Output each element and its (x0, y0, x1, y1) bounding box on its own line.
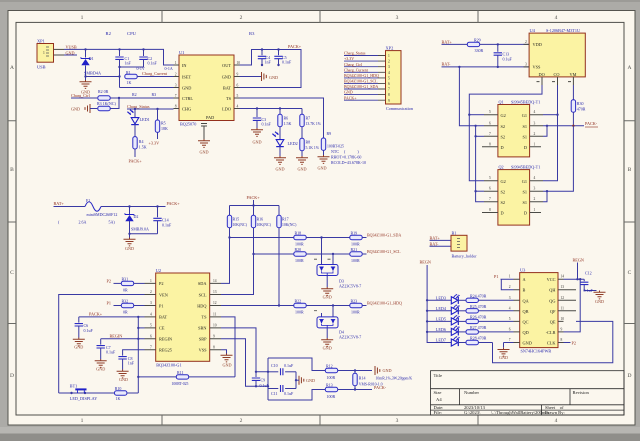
node D2 tap (128, 205, 130, 207)
svg-text:R12: R12 (326, 364, 333, 369)
svg-text:HDQ: HDQ (197, 303, 207, 308)
svg-text:U3: U3 (520, 267, 526, 272)
svg-text:R5: R5 (161, 120, 166, 125)
node CO/G1 (556, 114, 558, 116)
svg-text:S2: S2 (501, 124, 506, 129)
svg-text:QA: QA (523, 298, 530, 303)
wire VCC row (564, 263, 585, 280)
svg-text:2.6A: 2.6A (79, 220, 87, 225)
wire SRN (221, 328, 256, 372)
ground below D4 (321, 338, 333, 346)
svg-text:C11: C11 (271, 391, 278, 396)
svg-text:100R: 100R (295, 242, 304, 247)
svg-text:8: 8 (561, 338, 563, 342)
svg-text:RHOT=0.178K-60: RHOT=0.178K-60 (331, 155, 361, 160)
svg-text:F1: F1 (86, 198, 90, 203)
node caps top (261, 48, 263, 50)
svg-text:C10: C10 (271, 363, 278, 368)
svg-text:1: 1 (509, 275, 511, 279)
ground right of R12 (375, 366, 380, 375)
node D2 bottom (128, 233, 130, 235)
svg-text:10: 10 (561, 317, 565, 321)
svg-text:BQ34Z100-G1_HDQ: BQ34Z100-G1_HDQ (344, 73, 379, 78)
svg-text:R27 470R: R27 470R (470, 325, 487, 330)
svg-text:+3.3V: +3.3V (149, 141, 160, 146)
wire S2 bus (476, 126, 484, 202)
LED LED5 (426, 315, 466, 325)
node R1 left (118, 75, 120, 77)
svg-text:LED4: LED4 (436, 306, 447, 311)
svg-text:R32: R32 (122, 299, 129, 304)
svg-text:3: 3 (175, 83, 177, 87)
svg-text:SRP: SRP (199, 337, 207, 342)
svg-text:2: 2 (509, 285, 511, 289)
svg-text:6: 6 (509, 327, 511, 331)
wire BAT- row (442, 66, 530, 68)
svg-text:REGIN: REGIN (110, 334, 123, 339)
svg-text:3: 3 (525, 63, 527, 67)
svg-text:14: 14 (561, 275, 565, 279)
svg-text:100RT-025: 100RT-025 (172, 382, 189, 386)
node SRN top (255, 371, 257, 373)
svg-text:Size: Size (434, 390, 442, 395)
svg-text:B: B (628, 167, 632, 173)
svg-text:GND: GND (383, 368, 392, 373)
ground left of R3 (85, 104, 90, 113)
wire CE stub (138, 327, 144, 329)
node rail center (252, 204, 254, 206)
connector XP2 (378, 45, 414, 110)
wire LDO row (240, 108, 303, 110)
svg-text:2: 2 (525, 40, 527, 44)
svg-text:TS: TS (201, 315, 207, 320)
svg-text:BAT-: BAT- (430, 241, 440, 246)
wire Charg_Status (127, 108, 174, 110)
svg-text:GND: GND (125, 246, 134, 251)
svg-text:C: C (10, 270, 14, 276)
svg-text:Charg_Current: Charg_Current (344, 67, 369, 72)
node DO/G2 (468, 114, 470, 116)
svg-text:R16: R16 (257, 217, 264, 222)
svg-text:B1: B1 (452, 230, 457, 235)
svg-text:S2: S2 (501, 189, 506, 194)
wire pullup rail (230, 200, 280, 206)
node D1 junction (84, 48, 86, 50)
svg-text:R10: R10 (115, 386, 122, 391)
svg-text:12: 12 (213, 301, 217, 305)
svg-text:GND: GND (252, 140, 261, 145)
svg-text:13: 13 (561, 285, 565, 289)
svg-text:Si9945BEDQ-T1: Si9945BEDQ-T1 (511, 164, 540, 169)
svg-text:LED3: LED3 (436, 295, 446, 300)
svg-text:0.1nF: 0.1nF (148, 61, 158, 66)
block reference texts (106, 31, 256, 36)
IC U2 BQ34Z100-G1 (145, 268, 222, 368)
resistor R24 (466, 294, 514, 303)
svg-text:BQ34Z100-G1_SCL: BQ34Z100-G1_SCL (344, 79, 378, 84)
node R11 row (137, 376, 139, 378)
wire BAT+ to R29 (442, 43, 468, 45)
node BAT vertical (137, 316, 139, 318)
svg-text:LED1: LED1 (140, 117, 150, 122)
node REGN drop (576, 278, 578, 280)
svg-text:0.1uF: 0.1uF (584, 288, 594, 293)
node R14 bottom (354, 388, 356, 390)
node C14 tap (156, 205, 158, 207)
svg-text:BQ34Z100-G1_HDQ: BQ34Z100-G1_HDQ (367, 301, 402, 306)
svg-text:RCOLD=43.678K-10: RCOLD=43.678K-10 (331, 160, 366, 165)
svg-text:S1: S1 (522, 189, 527, 194)
svg-text:DO: DO (539, 72, 545, 77)
svg-text:4: 4 (388, 71, 390, 75)
svg-text:R25 470R: R25 470R (470, 304, 487, 309)
wire R22-R23 (306, 305, 350, 307)
svg-text:REGN: REGN (420, 260, 431, 265)
svg-text:1nF: 1nF (125, 61, 132, 66)
wire BAT+ to fuse (54, 206, 86, 208)
wire Q2 pin2 tie (543, 191, 547, 202)
svg-text:D: D (628, 373, 632, 379)
wire R18-R19 (306, 237, 350, 239)
svg-text:A: A (628, 65, 632, 71)
svg-text:GND: GND (119, 377, 128, 382)
svg-text:C12: C12 (585, 270, 592, 275)
resistor R4 (133, 137, 147, 157)
node S2 pin7 (474, 135, 476, 137)
node HDQ/R17 (278, 304, 280, 306)
wires XP2 (344, 56, 378, 101)
svg-text:7: 7 (509, 338, 511, 342)
svg-text:D: D (501, 145, 504, 150)
title block (431, 371, 625, 415)
diode D4 (314, 306, 361, 340)
svg-text:5: 5 (150, 324, 152, 328)
svg-text:U2: U2 (156, 268, 161, 273)
svg-text:5.1K 1%: 5.1K 1% (306, 146, 320, 150)
svg-text:S2: S2 (501, 200, 506, 205)
svg-text:VSS: VSS (533, 65, 541, 70)
ground below R9 (318, 155, 330, 163)
svg-text:P2: P2 (107, 279, 111, 284)
svg-text:BAT: BAT (159, 315, 167, 320)
svg-text:AZ23C5V8-7: AZ23C5V8-7 (339, 284, 361, 289)
node R5 top (156, 108, 158, 110)
svg-text:QF: QF (550, 309, 556, 314)
capacitor C10 (268, 363, 296, 375)
node D3 tap SCL (332, 253, 334, 255)
svg-text:QE: QE (550, 319, 556, 324)
ground below C3 (251, 128, 263, 136)
svg-text:P1: P1 (494, 274, 498, 279)
svg-text:13: 13 (213, 290, 217, 294)
svg-text:4: 4 (534, 176, 536, 180)
wire REGIN row (101, 338, 145, 340)
svg-text:100RT-025: 100RT-025 (327, 145, 344, 149)
wire holder pin1 (430, 239, 452, 241)
ground below C8 (117, 370, 129, 378)
svg-text:GND: GND (499, 355, 508, 360)
svg-text:10K(NC): 10K(NC) (257, 223, 272, 227)
svg-text:14: 14 (213, 279, 217, 283)
pin XP1-VBUS (54, 48, 65, 50)
svg-text:LED6: LED6 (436, 327, 446, 332)
IC U1 BQ25070 (174, 50, 241, 127)
wire VUSB stub (64, 54, 77, 56)
svg-text:5: 5 (237, 94, 239, 98)
capacitor C7 (97, 339, 117, 359)
resistor R2 (98, 89, 174, 100)
svg-text:BAT-: BAT- (442, 62, 452, 67)
svg-text:R2: R2 (132, 92, 137, 97)
svg-text:BQ34Z100-G1_SCL: BQ34Z100-G1_SCL (367, 249, 401, 254)
resistor R1 (125, 70, 174, 85)
svg-text:5: 5 (388, 76, 390, 80)
capacitor C9 (252, 372, 270, 388)
svg-text:C9: C9 (261, 377, 266, 382)
resistor R22 (294, 299, 306, 315)
svg-text:6: 6 (489, 187, 491, 191)
svg-text:+3.3V: +3.3V (344, 56, 354, 61)
wire bus vertical x138 (137, 317, 139, 393)
battery BT1 (59, 383, 115, 401)
svg-text:B: B (523, 288, 526, 293)
svg-text:3: 3 (388, 65, 390, 69)
svg-text:BAT+: BAT+ (442, 40, 453, 45)
capacitor C1 (115, 49, 131, 87)
ground below LED2 (274, 156, 286, 164)
svg-text:P2: P2 (572, 340, 576, 345)
wire VEN long (59, 295, 145, 394)
svg-text:2: 2 (175, 72, 177, 76)
node LED1 top (134, 108, 136, 110)
svg-text:1: 1 (534, 208, 536, 212)
net labels XP2 (344, 51, 379, 101)
svg-text:SMBJ9.0A: SMBJ9.0A (131, 227, 149, 232)
resistor R25 (466, 304, 514, 313)
node C3 top (256, 107, 258, 109)
ground at U3 GND pin (504, 343, 514, 348)
svg-text:4: 4 (555, 15, 558, 21)
svg-text:8: 8 (175, 104, 177, 108)
svg-text:PACK+: PACK+ (247, 195, 261, 200)
svg-text:G:\2023\: G:\2023\ (464, 410, 481, 415)
wire TS riser (221, 317, 235, 377)
svg-text:12: 12 (561, 296, 565, 300)
svg-text:R23: R23 (351, 299, 358, 304)
svg-text:0.1uF: 0.1uF (106, 350, 116, 355)
svg-text:100R: 100R (351, 242, 360, 247)
svg-text:BT1: BT1 (70, 383, 77, 388)
capacitor C14 (153, 207, 172, 234)
svg-text:R1: R1 (126, 70, 131, 75)
LED LED6 (426, 325, 466, 335)
svg-text:VM: VM (570, 72, 577, 77)
svg-text:GND: GND (222, 363, 231, 368)
node loop left bottom (267, 385, 269, 387)
svg-text:8: 8 (388, 93, 390, 97)
svg-text:G1: G1 (522, 179, 527, 184)
svg-text:S-1206B47-M3T1U: S-1206B47-M3T1U (546, 28, 580, 33)
node BAT- drop (458, 66, 460, 68)
svg-text:R24 470R: R24 470R (470, 294, 487, 299)
svg-text:4: 4 (534, 110, 536, 114)
svg-text:10: 10 (237, 61, 241, 65)
wire C10-C11 tie (295, 372, 297, 389)
wire SDA row (230, 237, 295, 239)
resistor R28 (466, 336, 493, 345)
svg-text:11: 11 (213, 313, 217, 317)
connector B1 (451, 230, 477, 258)
svg-text:100R: 100R (295, 258, 304, 263)
wire fuse to PACK+ (101, 206, 166, 208)
resistor R31 (114, 277, 145, 293)
svg-text:R20: R20 (295, 247, 302, 252)
svg-text:2: 2 (534, 197, 536, 201)
resistor R29 (467, 38, 529, 54)
node C2 junction (142, 48, 144, 50)
ground below D1 (85, 77, 87, 81)
svg-text:B: B (10, 167, 14, 173)
wire LED7 to QE (493, 321, 613, 362)
svg-text:PACK+: PACK+ (288, 44, 302, 49)
svg-text:2: 2 (240, 15, 243, 21)
svg-text:PACK+: PACK+ (344, 95, 357, 100)
svg-text:8: 8 (489, 142, 491, 146)
svg-text:R7: R7 (306, 116, 311, 121)
svg-text:LED2: LED2 (288, 141, 298, 146)
svg-text:0.1nF: 0.1nF (262, 121, 272, 126)
svg-text:3: 3 (534, 187, 536, 191)
svg-text:G2: G2 (501, 179, 506, 184)
svg-text:OUT: OUT (222, 63, 231, 68)
ground below D2 (124, 238, 136, 246)
svg-text:GND: GND (269, 75, 278, 80)
svg-text:SCL: SCL (199, 292, 207, 297)
capacitor C12 (580, 270, 597, 293)
svg-text:BQ25070: BQ25070 (180, 122, 196, 127)
wire R20-R21 (306, 253, 350, 255)
fuse F1 (58, 198, 117, 225)
svg-text:VUSB: VUSB (66, 45, 77, 50)
svg-text:R28 470R: R28 470R (470, 336, 487, 341)
node D4 tap (332, 304, 334, 306)
svg-text:VEN: VEN (159, 292, 168, 297)
wire GND rail to pin3 (120, 87, 174, 89)
svg-text:XP1: XP1 (37, 39, 45, 44)
wire LED anode bus (427, 265, 451, 343)
svg-text:0.1nF: 0.1nF (282, 60, 292, 65)
LED LED1 (127, 109, 149, 137)
svg-text:PACK+: PACK+ (89, 312, 103, 317)
svg-text:S1: S1 (522, 200, 527, 205)
svg-text:6: 6 (388, 82, 390, 86)
svg-text:9: 9 (213, 334, 215, 338)
svg-text:5: 5 (489, 110, 491, 114)
svg-text:7: 7 (175, 94, 177, 98)
svg-text:Charg_Ctrl: Charg_Ctrl (344, 62, 363, 67)
svg-text:2: 2 (240, 418, 243, 424)
node CLR/VCC (579, 278, 581, 280)
svg-text:BAT+: BAT+ (430, 236, 441, 241)
svg-text:R3: R3 (152, 92, 157, 97)
node S2 bus top (474, 125, 476, 127)
svg-text:GND: GND (71, 107, 80, 112)
svg-text:Q2: Q2 (499, 164, 504, 169)
svg-text:TS: TS (226, 96, 232, 101)
svg-text:QB: QB (523, 309, 529, 314)
svg-text:GND: GND (523, 341, 532, 346)
svg-text:U1: U1 (179, 50, 184, 55)
wire DO to Q1 G2 (469, 114, 484, 116)
svg-text:9: 9 (561, 327, 563, 331)
svg-text:Revision: Revision (573, 390, 590, 395)
svg-text:-CLR: -CLR (546, 330, 556, 335)
resistor R10 (115, 386, 139, 401)
svg-text:Number: Number (464, 390, 480, 395)
svg-text:1: 1 (81, 15, 84, 21)
thermistor R11 (172, 370, 236, 386)
svg-text:1.5K: 1.5K (284, 121, 292, 126)
diode D2 (125, 207, 149, 238)
svg-text:GND: GND (74, 345, 83, 350)
IC U4 (524, 28, 586, 85)
wire OUT to PACK+ rail (240, 50, 302, 88)
capacitor C2 (120, 49, 158, 67)
resistor R20 (294, 247, 306, 263)
transistor Q1 (482, 99, 543, 157)
svg-text:7: 7 (489, 197, 491, 201)
svg-text:GND: GND (66, 50, 75, 55)
svg-text:7: 7 (489, 132, 491, 136)
wire pin9 gnd (240, 76, 262, 78)
svg-text:8: 8 (489, 208, 491, 212)
svg-text:10K(NC): 10K(NC) (282, 223, 297, 227)
node C2/C1 tie (118, 66, 120, 68)
node C13 bottom (497, 66, 499, 68)
svg-text:R26 470R: R26 470R (470, 315, 487, 320)
wire CO to Q1 G1 (543, 114, 558, 116)
ground at C12 (594, 291, 606, 299)
svg-text:Communication: Communication (386, 106, 414, 111)
svg-text:P2: P2 (159, 281, 164, 286)
node loop left top (267, 371, 269, 373)
wire SRP (221, 339, 268, 387)
svg-text:R18: R18 (295, 231, 302, 236)
resistor R19 (350, 231, 367, 247)
resistor R15 (221, 206, 248, 284)
thermistor R9 (321, 131, 344, 155)
ground below PAD (198, 139, 210, 147)
wire BAT row (79, 316, 145, 318)
capacitor C11 (268, 385, 296, 396)
svg-text:IN: IN (182, 63, 187, 68)
LED LED4 (426, 304, 466, 314)
svg-text:U4: U4 (530, 28, 536, 33)
svg-text:0.1uF: 0.1uF (284, 363, 294, 368)
svg-text:4: 4 (555, 418, 558, 424)
node D3 tap SDA (320, 236, 322, 238)
svg-text:4: 4 (237, 104, 239, 108)
svg-text:GND: GND (323, 295, 332, 300)
svg-text:100R: 100R (295, 310, 304, 315)
svg-text:D: D (10, 373, 14, 379)
node SDA/R15 (228, 236, 230, 238)
svg-text:3: 3 (509, 296, 511, 300)
svg-text:GND: GND (182, 85, 191, 90)
svg-text:GND: GND (222, 74, 231, 79)
svg-text:BAT+: BAT+ (54, 201, 65, 206)
svg-text:R2: R2 (106, 31, 112, 36)
